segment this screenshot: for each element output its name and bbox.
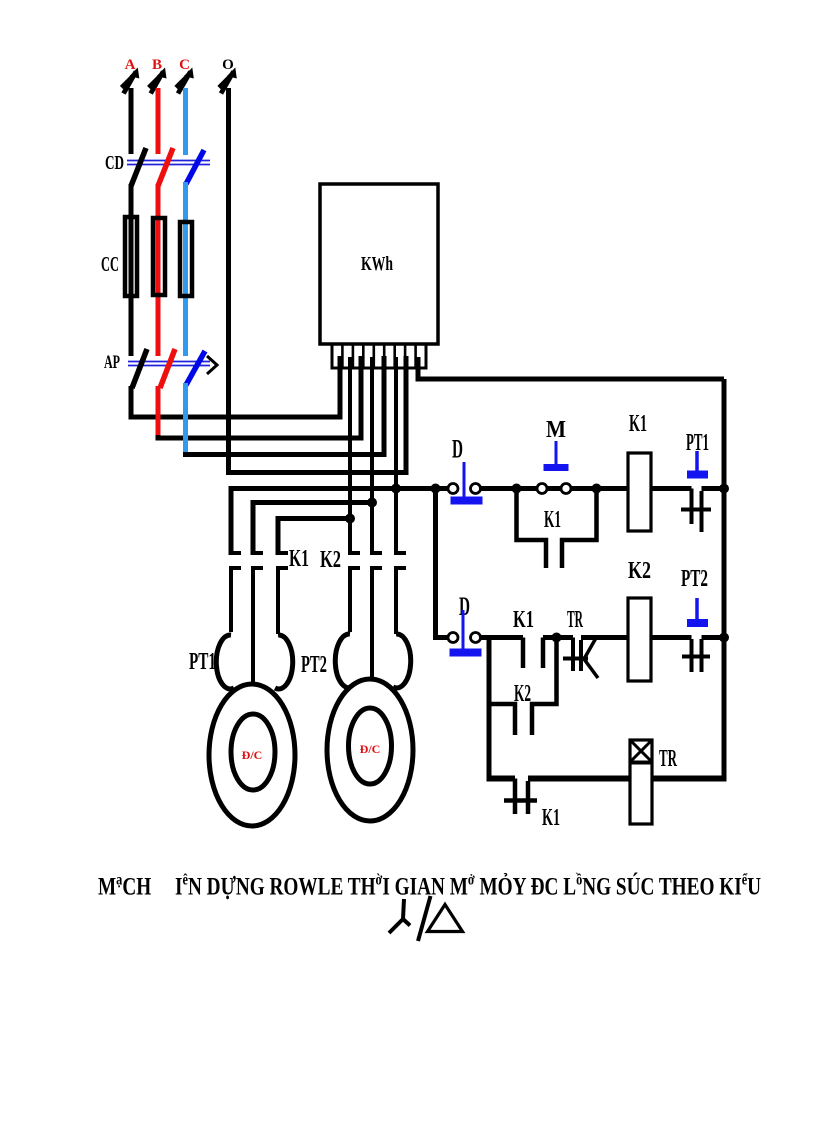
wire phase C upper (183, 88, 188, 155)
svg-text:Đ/C: Đ/C (360, 742, 381, 756)
motor 2 outer circle (327, 679, 413, 821)
aux contact K1 parallel with M (517, 489, 547, 569)
contact K2 parallel branch (489, 704, 515, 735)
push button M contacts (537, 484, 547, 494)
meter terminal strip (332, 344, 426, 368)
meter output wire w2 to K2 contact (348, 357, 352, 555)
wire riser to row4 (487, 638, 492, 779)
contact TR time delay normally closed (571, 638, 575, 672)
wire phase A to meter (131, 356, 340, 417)
wire phase B upper (156, 88, 161, 154)
breaker AP blade B (160, 349, 175, 388)
svg-text:M: M (546, 417, 566, 443)
svg-text:TR: TR (567, 607, 583, 633)
supply arrow phase B (149, 68, 167, 94)
wire phase B lower (156, 386, 161, 435)
motor 1 inner circle (231, 714, 275, 790)
svg-text:Đ/C: Đ/C (242, 748, 263, 762)
delta symbol (428, 905, 463, 932)
wire feed row2 (436, 489, 448, 638)
svg-text:K2: K2 (628, 558, 651, 584)
svg-text:PT2: PT2 (681, 566, 708, 592)
contactor K2 main contacts (350, 553, 406, 681)
overload PT2 right loop (393, 634, 411, 688)
coil K1 (628, 453, 651, 531)
overload PT2 left loop (335, 634, 353, 688)
junction w2/line7 (345, 514, 355, 524)
junction M branch right (592, 484, 602, 494)
motor 1 outer circle (209, 684, 295, 826)
junction row2 rail (719, 633, 729, 643)
KWh meter box (320, 184, 438, 344)
svg-text:D: D (452, 435, 463, 464)
breaker AP trip arrow (207, 356, 217, 374)
wire row1 segment to M (481, 486, 537, 491)
meter output wire w8 control feed (418, 357, 724, 379)
svg-text:K1: K1 (542, 805, 560, 831)
push button D row1 contacts (448, 484, 458, 494)
contact PT1 normally closed (690, 489, 694, 525)
junction row1 rail (719, 484, 729, 494)
svg-text:KWh: KWh (361, 253, 393, 275)
svg-text:PT2: PT2 (301, 652, 327, 678)
wire row1 PT1 to rail (702, 486, 725, 491)
contact K1 normally closed row4 (513, 779, 518, 815)
junction w6/line5 (391, 484, 401, 494)
svg-text:CD: CD (105, 152, 124, 174)
svg-text:K1: K1 (629, 411, 647, 437)
breaker AP blade C (186, 351, 205, 385)
contactor K1 main contacts (231, 553, 288, 687)
svg-text:K1: K1 (544, 507, 561, 533)
svg-text:K1: K1 (513, 607, 534, 633)
wire row1 segment M to coil (572, 486, 629, 491)
meter output wire w4 to K2 contact (370, 357, 374, 555)
switch CD blade C (186, 150, 204, 184)
overload PT1 left loop (216, 635, 234, 689)
push button D row2 actuator (462, 610, 465, 649)
wire branch line to K1 contact col1 and control row1 (231, 489, 448, 556)
meter output wire w6 to K2 contact (394, 357, 398, 555)
motor 2 inner circle (349, 708, 392, 784)
wire row4 left (487, 776, 516, 782)
timer coil TR (630, 740, 652, 824)
push button D row1 actuator (463, 462, 466, 497)
wire branch line to K1 contact col2 (253, 503, 372, 556)
svg-text:PT1: PT1 (189, 649, 216, 675)
svg-text:IêN DỰNG ROWLE THờI GIAN Mở MỎ: IêN DỰNG ROWLE THờI GIAN Mở MỎY ĐC LồNG … (175, 871, 761, 900)
svg-text:TR: TR (659, 746, 677, 772)
switch CD bus bars (127, 160, 210, 162)
svg-text:CC: CC (101, 252, 119, 276)
wire row2 K1 to TR (543, 635, 573, 640)
wire row2 PT2 to rail (702, 635, 725, 640)
coil K2 (628, 598, 651, 681)
wire phase C middle (183, 182, 188, 356)
svg-text:B: B (152, 57, 162, 73)
star symbol (389, 899, 410, 933)
contact PT2 normally closed (690, 639, 694, 672)
push button M actuator (555, 441, 558, 464)
wire phase B to meter (158, 356, 361, 438)
contact PT2 actuator (695, 598, 699, 620)
wire phase B middle (156, 184, 161, 356)
svg-text:O: O (222, 57, 234, 73)
svg-text:AP: AP (104, 352, 120, 373)
wire row2 TR to coil K2 (581, 635, 628, 640)
right rail (722, 379, 727, 779)
junction w4/line6 (367, 498, 377, 508)
svg-text:K1: K1 (289, 546, 309, 572)
wire phase C lower (183, 383, 188, 452)
slash (418, 896, 431, 941)
fuse F1 (125, 217, 137, 296)
switch CD blade B (158, 148, 173, 186)
fuse F3 (180, 222, 192, 296)
wire branch line to K1 contact col3 (278, 519, 350, 556)
svg-text:MạCH: MạCH (98, 871, 151, 900)
junction M branch left (512, 484, 522, 494)
push button D row2 contacts (448, 633, 458, 643)
wire row4 middle (528, 776, 630, 782)
wire row2 to K1 contact (481, 635, 524, 640)
svg-text:K2: K2 (320, 547, 341, 573)
breaker AP bus bars (128, 361, 210, 363)
wire row1 coil to PT1 (651, 486, 692, 491)
wire row4 right (652, 776, 727, 782)
svg-text:K2: K2 (514, 681, 531, 707)
wire phase A middle (129, 184, 134, 356)
overload PT1 right loop (275, 635, 293, 689)
wire row2 coil to PT2 (651, 635, 692, 640)
junction row1 feed to row2 (431, 484, 441, 494)
contact K1 row2 (521, 638, 526, 669)
contact PT1 actuator (695, 451, 699, 471)
supply arrow phase C (176, 68, 194, 94)
wire phase A upper (129, 88, 134, 154)
fuse F2 (153, 218, 165, 295)
junction K2 branch (552, 633, 562, 643)
switch CD blade A (131, 148, 146, 186)
supply arrow phase A (122, 68, 140, 94)
wire phase C to meter (186, 356, 385, 455)
wire neutral O vertical (229, 88, 407, 473)
supply arrow neutral O (219, 68, 237, 94)
breaker AP blade A (132, 349, 147, 388)
